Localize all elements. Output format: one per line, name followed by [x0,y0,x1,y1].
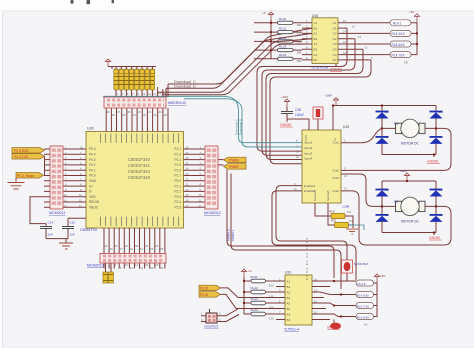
net label PWM1 flag [218,164,246,169]
net label P0.3_Radio flag [16,173,44,178]
svg-text:D4: D4 [333,58,337,62]
wire download stubs to debug header [166,84,172,97]
resistor R30 [329,210,351,219]
net label RL4.7 oval [390,52,411,58]
resistor pack RP1 (8 pull-up resistors) [114,69,155,90]
svg-text:Out3: Out3 [332,176,339,180]
wire Out4 loop to motor2 right node [341,191,451,245]
svg-text:P0.4 TXD: P0.4 TXD [14,155,29,159]
svg-text:+26V: +26V [400,169,407,173]
diode D1 [376,106,390,129]
svg-text:+5V: +5V [380,274,385,278]
wire Download_C run [172,28,312,84]
pin names right column [174,147,181,209]
net label RL4.1 oval [390,20,411,26]
diode D2 [376,128,390,154]
svg-text:C8051F348: C8051F348 [128,175,151,180]
resistor RL33 [278,45,302,55]
resistor RL30 [278,17,302,27]
wire right bus of oval column [374,283,378,317]
svg-text:P0.2: P0.2 [89,163,96,167]
svg-text:P0.3_Radio: P0.3_Radio [17,174,34,178]
svg-text:Out4: Out4 [332,189,339,193]
tiny numbers U34/U31/driver pins [279,19,373,315]
capacitor C15 [62,218,75,238]
wire MCU top pin wires to debug header [106,108,168,132]
svg-text:+5: +5 [262,11,266,15]
svg-text:Input2: Input2 [304,146,313,150]
connector MCM2011 (left header) [49,146,65,215]
svg-text:P0.1: P0.1 [89,168,96,172]
net label RL4.8 oval [356,314,374,320]
svg-text:RL4.8/1K: RL4.8/1K [357,315,370,319]
svg-text:P0.0: P0.0 [89,174,96,178]
svg-text:C8051F341: C8051F341 [128,163,151,168]
svg-text:RL4.3/1K: RL4.3/1K [392,32,406,36]
power net GND50 (red, motor2) [429,236,442,240]
tiny numbers below bottom header [105,263,164,270]
capacitor C40 (red ellipse bottom) [330,320,341,330]
svg-text:U31: U31 [285,271,291,275]
svg-text:RL4.1: RL4.1 [393,22,402,26]
diode D5 [376,181,390,206]
power flag +5V (RL4 column) [409,10,420,23]
IC U34 (ULN2003A buffer) body [312,14,339,70]
svg-text:MOTOR DC: MOTOR DC [401,220,420,224]
wire sense pins to R30/R31 [315,203,353,228]
motor M1 [382,119,436,145]
svg-text:0.5: 0.5 [347,210,351,214]
wire teal vertical pair (Download bus down) [226,96,302,142]
svg-text:D2: D2 [385,135,389,139]
net label Download_D [174,85,196,89]
wire teal sense tap [349,225,365,230]
value label C8051F340 center text [128,157,151,180]
svg-text:P2.5: P2.5 [174,206,181,210]
power flag +26V (C38) [281,95,290,107]
connector P1 (2-pin part under header) [103,263,113,283]
svg-text:MCM2011: MCM2011 [49,211,65,215]
svg-text:B1: B1 [314,26,318,30]
switch S1 (MCM 4-pad part) [201,309,239,329]
svg-text:100: 100 [269,317,274,321]
svg-text:100: 100 [297,59,302,63]
power net GND50 (red, under C38) [280,119,293,127]
resistor RL31 [278,27,302,37]
diode D8 [430,206,444,232]
net label RL4.3 oval [390,30,411,36]
tiny numbers above debug header [117,92,167,96]
svg-text:C1 C2 C3 C4 C5 C6: C1 C2 C3 C4 C5 C6 [305,238,309,280]
svg-text:PWM1: PWM1 [229,165,239,169]
svg-text:P3.01: P3.01 [200,293,209,297]
wire motor1 top rail [333,105,436,107]
svg-text:M1: M1 [394,122,398,126]
svg-text:P0.3: P0.3 [89,147,96,151]
svg-text:C14: C14 [48,221,54,225]
capacitor C39 (red part, bottom right) [342,255,369,281]
MCU U30 (C8051F340) body [86,127,184,229]
svg-text:MCM2012: MCM2012 [204,211,221,215]
svg-text:U34: U34 [312,14,318,18]
svg-text:VBUS: VBUS [89,206,98,210]
wire +5 pull-up bus left of RL3x [270,20,272,59]
svg-text:P2.1: P2.1 [174,184,181,188]
svg-text:A3: A3 [314,42,318,46]
svg-text:100: 100 [297,23,302,27]
svg-text:A4: A4 [287,312,291,316]
wire PWM pair down to bottom region [227,170,334,279]
net label RL4.6 oval [356,292,374,298]
wire flag link vertical [44,156,46,175]
node junction dots on RL4x bus [243,280,245,304]
capacitor C14 [40,221,53,239]
wire MCU fan up to U34 input rows [158,39,312,93]
svg-text:100: 100 [297,32,302,36]
svg-text:GND: GND [89,179,97,183]
svg-text:R30: R30 [329,210,335,214]
svg-text:B4: B4 [314,58,318,62]
svg-text:D3: D3 [333,48,337,52]
pin names top row (ticks) [101,134,179,144]
svg-text:P2.2: P2.2 [174,190,181,194]
svg-text:C3: C3 [333,42,337,46]
net label P3.00 flag [199,285,221,290]
svg-text:C15: C15 [70,221,76,225]
svg-text:B2: B2 [287,296,291,300]
resistor RL42 [251,286,275,298]
svg-text:A1: A1 [287,279,291,283]
svg-text:D2: D2 [333,37,337,41]
wire U31 right pin rows [312,281,356,320]
svg-text:P1.6: P1.6 [174,168,181,172]
net label RL4.5 oval (out column) [356,280,374,286]
wire motor2 bottom rail [382,233,436,236]
svg-text:B4: B4 [287,318,291,322]
svg-text:D3: D3 [439,110,443,114]
wire resistor pack bottoms to debug header [116,90,163,97]
svg-text:C38: C38 [295,108,301,112]
IC U31 (TLP521-4 optocoupler) body [284,238,312,332]
tiny numbers below debug header [107,110,168,117]
net label Download_C [174,80,196,84]
wire enable pins down-right to bottom region [276,186,347,255]
wire resistor pack top bus [112,67,156,70]
wire driver top pins [287,106,333,131]
pin names left column [89,147,100,209]
power flag +5 (oval column) [374,274,385,283]
power flag +26V (motor2) [400,169,410,181]
svg-text:D6: D6 [385,213,389,217]
wire U34 output rows to RL4.x labels [338,23,390,60]
svg-text:P3.00: P3.00 [200,287,209,291]
svg-text:+26V: +26V [281,95,288,99]
svg-text:C1: C1 [333,21,337,25]
connector MCM2013 (bottom header) [87,254,166,268]
svg-text:MOTOR DC: MOTOR DC [401,142,420,146]
svg-text:M2: M2 [394,200,398,204]
node junction dots motor2 [381,180,437,234]
svg-text:+26V: +26V [325,94,332,98]
wire teal bus across header top [103,95,226,97]
net label P0.3 RXD flag [12,148,45,153]
svg-text:P1.5: P1.5 [174,163,181,167]
wire Download_D run [172,33,312,88]
svg-text:D8: D8 [439,213,443,217]
power net VDD50 (red, under U34) [330,64,342,72]
node junction dots motor1 [332,105,437,156]
wire row stubs under RL3x labels [254,23,302,59]
svg-text:R31: R31 [331,219,337,223]
resistor RL34 [278,53,302,63]
svg-text:100: 100 [297,50,302,54]
ground (sense resistors, red) [346,229,358,234]
resistor R31 [331,219,353,228]
diode D3 [430,106,444,129]
resistor RL41 [251,275,275,287]
svg-text:SenseA: SenseA [313,190,317,201]
svg-text:MCM2013: MCM2013 [87,264,104,268]
capacitor C38 [281,107,304,119]
svg-text:1nF: 1nF [70,233,75,237]
svg-text:MHDR2X10: MHDR2X10 [168,101,186,105]
wire stubs below bottom header [104,263,165,269]
svg-text:RL34: RL34 [279,53,287,57]
net label PWM0 flag [218,157,246,162]
svg-text:D-: D- [89,190,92,194]
svg-text:P2.3: P2.3 [174,195,181,199]
diode D7 [430,181,444,206]
diode D4 [430,128,444,154]
wire left header left stubs [44,149,50,207]
svg-text:PWM3.1: PWM3.1 [231,229,235,241]
svg-text:RL33: RL33 [279,45,287,49]
svg-text:A4: A4 [314,53,318,57]
resistor RL44 [251,308,275,320]
pin names bottom row (ticks) [101,217,179,227]
svg-text:GND50: GND50 [427,160,438,164]
svg-text:RL30: RL30 [279,17,287,21]
connector MCM2012 (right header) [204,146,221,215]
svg-text:D4: D4 [439,135,443,139]
connector J1 debug header MHDR2X10 [104,97,186,108]
svg-text:Download_D: Download_D [239,119,243,135]
resistor RL32 [278,36,302,46]
svg-text:A3: A3 [287,301,291,305]
svg-text:+5V: +5V [409,10,414,14]
svg-text:RL41: RL41 [251,275,259,279]
svg-text:U30: U30 [87,127,94,131]
svg-text:D5: D5 [385,188,389,192]
svg-text:B3: B3 [287,307,291,311]
wire RL4.x right bus [411,23,417,55]
svg-text:TLP521-4: TLP521-4 [284,328,299,332]
svg-text:C2: C2 [333,32,337,36]
svg-text:C8051F340: C8051F340 [128,157,151,162]
svg-text:D7: D7 [439,188,443,192]
svg-text:C4: C4 [333,53,337,57]
wire Out3 to motor2 left node [341,174,382,206]
node junction dots RL4 bus [416,32,418,45]
power flag +5 (RL3x bus) [262,11,274,20]
svg-text:RL4.7/1K: RL4.7/1K [392,53,406,57]
svg-text:REGIN: REGIN [89,200,100,204]
svg-text:B1: B1 [287,285,291,289]
svg-text:1nF: 1nF [48,233,53,237]
svg-text:GND50: GND50 [429,236,440,240]
node junction dots (U31 outputs x PWM verticals) [333,280,342,318]
svg-text:P1.4: P1.4 [174,158,181,162]
svg-text:A1: A1 [314,21,318,25]
IC U33 (L298 motor driver) body [302,125,350,209]
svg-text:RL31: RL31 [279,27,287,31]
svg-text:V+: V+ [333,137,337,141]
svg-text:RL4.7/1K: RL4.7/1K [357,304,370,308]
diode D6 [376,206,390,232]
svg-text:B2: B2 [314,37,318,41]
svg-text:RL42: RL42 [251,286,259,290]
svg-text:+5: +5 [248,269,252,273]
svg-text:RL4.5/1K: RL4.5/1K [392,43,406,47]
svg-text:D+: D+ [89,184,93,188]
net label P3.01 flag [199,292,221,298]
svg-text:C8051F34: C8051F34 [80,228,97,232]
wire flags to U31 [221,288,277,309]
svg-text:L298: L298 [343,205,350,209]
svg-text:Input1: Input1 [304,141,313,145]
svg-text:P2.4: P2.4 [174,200,181,204]
svg-text:P2.0: P2.0 [174,179,181,183]
svg-text:D1: D1 [333,26,337,30]
svg-text:100uF: 100uF [295,113,304,117]
svg-text:VDD: VDD [89,195,96,199]
net label P0.4 TXD flag [12,154,45,159]
svg-text:PWM0: PWM0 [229,159,239,163]
svg-text:P0.5: P0.5 [89,158,96,162]
wire U34 left pin stubs [302,23,312,60]
node junction dots on bus [270,22,272,51]
svg-text:A2: A2 [287,290,291,294]
svg-text:D1: D1 [385,110,389,114]
svg-text:Out2: Out2 [332,169,339,173]
wire caps to header and ground [30,197,86,243]
diode D30 (red part above driver) [313,107,323,119]
net label RL4.7 oval [356,303,374,309]
wire U31 left pin stubs [276,287,285,320]
svg-text:P0.4: P0.4 [89,153,96,157]
motor M2 [382,197,436,223]
wire motor1 bottom rail [382,155,436,158]
svg-text:RL32: RL32 [279,36,287,40]
svg-text:SenseB: SenseB [326,190,330,201]
svg-text:RL4.5: RL4.5 [358,282,366,286]
power flag +3V on resistor pack [105,59,112,67]
wire MCU left pin stubs [63,149,86,207]
svg-text:MCM7023: MCM7023 [205,325,219,329]
caption fragment (cut off at top) [71,0,115,4]
wire Out1 to motor1 left node [341,128,382,142]
svg-text:RL4.6/1K: RL4.6/1K [357,293,370,297]
ground (caps) [59,243,73,249]
svg-text:P0.3 RXD: P0.3 RXD [14,149,29,153]
power net VDD50 (red, under U31) [327,326,340,330]
net label RL4.5 oval [390,41,411,47]
svg-text:B3: B3 [314,48,318,52]
wire motor2 top rail [382,180,436,182]
svg-text:C8051F344: C8051F344 [128,169,151,174]
svg-text:Input4: Input4 [304,157,313,161]
wire U34 outputs descending verticals [257,28,347,151]
svg-text:U33: U33 [343,125,349,129]
tiny numbers above bottom header [105,244,164,251]
ground (below radio flag) [8,178,25,189]
svg-text:P1.7: P1.7 [174,174,181,178]
svg-text:MCM1503: MCM1503 [354,262,368,266]
svg-text:A2: A2 [314,32,318,36]
svg-text:100: 100 [269,284,274,288]
svg-text:EnableA: EnableA [304,184,315,188]
power flag +26V (driver/motor rail) [325,94,339,106]
svg-text:Input3: Input3 [304,151,313,155]
resistor RL43 [251,297,275,309]
wire +5 bus left of RL4x [244,277,285,314]
power net GND50 (red, motor1) [427,160,440,164]
wire Out2 loop to motor1 right node [341,128,451,170]
svg-text:1K: 1K [364,323,368,327]
svg-text:GND50: GND50 [280,123,291,127]
svg-text:P1.3: P1.3 [174,153,181,157]
wire MCU right pin stubs [184,149,206,207]
power flag +5 (RL4x bus) [241,269,251,277]
svg-text:P1.2: P1.2 [174,147,181,151]
wire MCU bottom pin wires to header [104,228,165,254]
